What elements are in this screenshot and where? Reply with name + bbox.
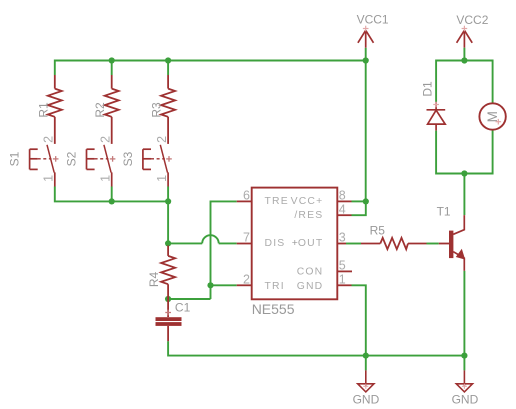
power VCC1 symbol <box>358 30 374 47</box>
node junction rail-GND1 <box>363 353 369 359</box>
svg-text:1: 1 <box>99 175 113 182</box>
wire R1 top drop <box>54 60 56 76</box>
pin 3 stub <box>337 243 346 245</box>
diode D1 <box>427 102 446 131</box>
svg-text:6: 6 <box>243 189 250 203</box>
node junction DIS/R4 <box>165 240 171 246</box>
power VCC1 pin cross <box>363 26 369 32</box>
svg-text:R4: R4 <box>147 272 161 288</box>
IC NE555 U1 box <box>252 188 338 300</box>
svg-text:R3: R3 <box>150 102 164 118</box>
svg-text:VCC1: VCC1 <box>357 13 389 27</box>
wire R3 top drop <box>167 61 169 76</box>
node junction R4/C1 <box>165 296 171 302</box>
svg-text:S2: S2 <box>64 151 78 166</box>
svg-text:GND: GND <box>297 281 324 292</box>
capacitor C1 <box>167 299 169 317</box>
resistor R3 <box>161 75 175 144</box>
svg-text:/RES: /RES <box>294 210 323 221</box>
svg-text:R5: R5 <box>370 223 386 237</box>
svg-text:S3: S3 <box>121 151 135 166</box>
svg-text:TRI: TRI <box>265 281 285 292</box>
svg-text:GND: GND <box>452 393 479 407</box>
switch S3 <box>143 145 168 187</box>
node junction TRI <box>207 282 213 288</box>
wire bottom of TRE vertical to R4/C1 node <box>168 298 210 300</box>
capacitor C1 plates <box>156 317 182 321</box>
svg-text:VCC2: VCC2 <box>456 13 488 27</box>
node junction rail-S2 <box>109 198 115 204</box>
wire GND1 stem <box>365 356 367 371</box>
node junction rail-GND2 <box>461 353 467 359</box>
wire S1 bottom <box>55 187 112 202</box>
wire top rail <box>55 60 366 62</box>
svg-text:R1: R1 <box>36 102 50 118</box>
pin 4 stub <box>337 214 351 216</box>
switch S2 cross <box>110 156 116 162</box>
node junction VCC2 <box>461 57 467 63</box>
power VCC2 symbol <box>457 30 473 47</box>
wire VCC2 stem <box>463 48 465 61</box>
wire switch bottom rail <box>112 200 168 202</box>
wire pin8 to VCC column <box>352 200 366 202</box>
svg-text:CON: CON <box>297 266 324 277</box>
svg-text:T1: T1 <box>437 204 451 218</box>
node junction rail-VCC1 <box>363 57 369 63</box>
wire DIS right segment <box>219 242 237 244</box>
ground GND1 <box>358 370 374 392</box>
transistor T1 emitter arrow <box>456 249 465 260</box>
wire pin3 to R5 <box>346 243 361 245</box>
wire DIS hump jump <box>202 235 219 243</box>
pin 2 stub <box>237 284 252 286</box>
wire pin1 to GND <box>352 285 366 355</box>
svg-text:3: 3 <box>339 231 346 245</box>
svg-text:M: M <box>485 111 500 122</box>
ground GND2 <box>456 370 472 392</box>
svg-text:5: 5 <box>339 259 346 273</box>
wire pin4 to VCC column <box>352 201 366 215</box>
svg-text:C1: C1 <box>175 301 191 315</box>
svg-text:2: 2 <box>42 136 56 143</box>
wire S2 bottom <box>111 187 113 202</box>
wire S3 bottom <box>167 187 169 202</box>
pin 5 stub <box>337 270 352 272</box>
node junction rail-R2 <box>109 57 115 63</box>
motor pin cross <box>496 119 502 125</box>
svg-text:7: 7 <box>243 231 250 245</box>
svg-text:4: 4 <box>339 202 346 216</box>
wire C1 to bottom rail and bottom rail <box>168 341 464 355</box>
wire TRI horizontal <box>211 284 237 286</box>
svg-text:2: 2 <box>99 136 113 143</box>
capacitor C1 plus mark <box>165 310 171 316</box>
svg-text:DIS: DIS <box>265 238 286 249</box>
resistor R4 <box>161 246 175 300</box>
capacitor C1 bottom lead <box>167 326 169 341</box>
svg-text:S1: S1 <box>8 151 22 166</box>
wire VCC1 vertical <box>365 48 367 202</box>
node junction rail-R3 <box>165 57 171 63</box>
wire collector drop <box>463 174 465 216</box>
diode D1 pin cross <box>433 102 439 108</box>
power VCC2 pin cross <box>462 26 468 32</box>
wire DIS left segment <box>168 242 202 244</box>
svg-text:2: 2 <box>243 273 250 287</box>
resistor R1 <box>48 75 62 144</box>
svg-text:R2: R2 <box>93 102 107 118</box>
transistor T1 <box>439 215 465 271</box>
pin 7 stub <box>237 243 252 245</box>
svg-text:VCC+: VCC+ <box>291 196 324 207</box>
switch S3 cross <box>166 156 172 162</box>
svg-text:NE555: NE555 <box>252 301 295 317</box>
motor M <box>479 103 505 129</box>
resistor R5 <box>361 238 427 249</box>
pin 6 stub <box>237 200 252 202</box>
node junction motor loop bottom <box>461 170 467 176</box>
svg-text:GND: GND <box>353 393 380 407</box>
svg-text:1: 1 <box>42 175 56 182</box>
svg-text:D1: D1 <box>421 81 435 97</box>
wire S3 column down to DIS node <box>167 201 169 243</box>
svg-text:1: 1 <box>339 273 346 287</box>
svg-text:TRE: TRE <box>265 196 289 207</box>
wire motor loop bottom rail <box>436 130 493 174</box>
node junction rail-S3 <box>165 198 171 204</box>
pin 8 stub <box>337 200 351 202</box>
switch S1 <box>30 145 55 187</box>
svg-text:1: 1 <box>155 175 169 182</box>
node junction pin8-VCC <box>363 198 369 204</box>
switch S2 <box>87 145 112 187</box>
svg-text:OUT: OUT <box>298 238 324 249</box>
resistor R2 <box>105 75 119 144</box>
pin 1 stub <box>337 284 351 286</box>
wire TRE horizontal and TRE/TRI vertical <box>211 201 237 299</box>
svg-text:2: 2 <box>155 136 169 143</box>
switch S1 cross <box>53 156 59 162</box>
wire emitter to bottom rail <box>463 271 465 356</box>
wire R5 to base <box>427 243 439 245</box>
svg-text:8: 8 <box>339 189 346 203</box>
wire GND2 stem <box>463 356 465 371</box>
wire motor loop top rail <box>436 61 493 104</box>
wire R2 top drop <box>111 61 113 76</box>
